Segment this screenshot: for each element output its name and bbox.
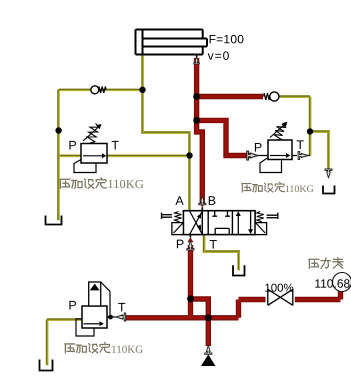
svg-text:B: B bbox=[208, 194, 216, 208]
svg-text:T: T bbox=[209, 238, 217, 252]
svg-text:T: T bbox=[111, 139, 119, 153]
svg-text:110KG: 110KG bbox=[285, 184, 314, 195]
svg-text:P: P bbox=[68, 299, 76, 313]
svg-text:110KG: 110KG bbox=[111, 344, 143, 356]
svg-text:P: P bbox=[254, 141, 262, 155]
svg-text:A: A bbox=[175, 194, 184, 208]
svg-text:110KG: 110KG bbox=[107, 177, 143, 191]
svg-text:P: P bbox=[68, 139, 76, 153]
svg-text:P: P bbox=[176, 237, 184, 251]
svg-text:100%: 100% bbox=[264, 283, 293, 295]
svg-text:T: T bbox=[296, 138, 304, 152]
svg-text:F=100: F=100 bbox=[209, 32, 245, 46]
svg-text:T: T bbox=[118, 301, 126, 315]
svg-text:110.68: 110.68 bbox=[314, 277, 350, 291]
svg-text:v=0: v=0 bbox=[208, 49, 231, 63]
